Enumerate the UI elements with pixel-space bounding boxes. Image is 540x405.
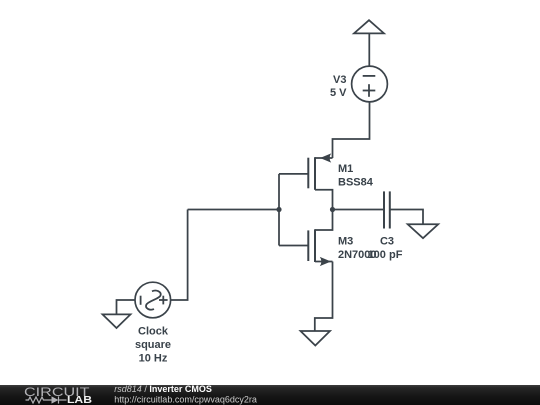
wire clock to ground	[117, 300, 136, 314]
wire VDD to V3 top	[368, 33, 370, 66]
svg-text:5 V: 5 V	[330, 87, 347, 99]
capacitor C3 plate 1	[383, 191, 385, 228]
footer logo resistor-diode line	[26, 396, 67, 403]
transistor M3 NMOS drain lead	[315, 210, 333, 231]
node input junction	[276, 207, 281, 212]
svg-text:rsd814 / Inverter CMOS: rsd814 / Inverter CMOS	[114, 384, 212, 394]
svg-text:M3: M3	[338, 236, 353, 248]
output wire to capacitor	[333, 209, 385, 211]
svg-text:http://circuitlab.com/cpwvaq6d: http://circuitlab.com/cpwvaq6dcy2ra	[114, 394, 257, 404]
transistor M1 PMOS source lead	[315, 157, 333, 159]
svg-text:square: square	[135, 339, 171, 351]
input wire	[188, 209, 279, 211]
svg-text:Clock: Clock	[138, 326, 169, 338]
capacitor C3 plate 2	[389, 191, 391, 228]
M1 drain lead	[315, 190, 333, 210]
svg-text:M1: M1	[338, 163, 353, 175]
svg-text:V3: V3	[333, 74, 346, 86]
clock minus bar	[140, 296, 142, 305]
gate bus wire	[278, 174, 280, 246]
V3 plus sign	[363, 90, 376, 92]
wire capacitor to ground	[390, 210, 423, 225]
svg-text:LAB: LAB	[67, 395, 92, 405]
svg-text:BSS84: BSS84	[338, 177, 374, 189]
ground right of capacitor	[408, 224, 439, 238]
node output junction	[330, 207, 335, 212]
ground under M3	[301, 331, 331, 346]
clock plus sign	[159, 299, 168, 301]
M3 gate plate	[307, 230, 309, 261]
M1 gate lead	[279, 173, 308, 175]
VDD supply symbol	[354, 20, 384, 33]
voltage source V3	[352, 66, 388, 102]
clock source V? circle	[135, 282, 171, 318]
M1 channel plate	[314, 157, 316, 190]
ground left of clock	[103, 314, 131, 328]
svg-text:100 pF: 100 pF	[368, 249, 403, 261]
wire M3 source to ground	[315, 262, 333, 332]
M1 gate plate	[307, 158, 309, 189]
clock waveform squiggle	[146, 291, 161, 310]
svg-text:10 Hz: 10 Hz	[139, 352, 168, 364]
M3 source lead	[315, 261, 333, 263]
wire clock to input	[171, 210, 188, 301]
V3 minus sign	[363, 75, 376, 77]
M3 channel plate	[314, 229, 316, 262]
M1 source arrow	[320, 153, 331, 162]
footer logo diode triangle	[52, 396, 59, 403]
M3 gate lead	[279, 245, 308, 247]
M3 source arrow	[320, 257, 331, 266]
wire V3 bottom to M1 source	[333, 102, 370, 158]
svg-text:C3: C3	[380, 236, 394, 248]
footer bar	[0, 385, 540, 405]
